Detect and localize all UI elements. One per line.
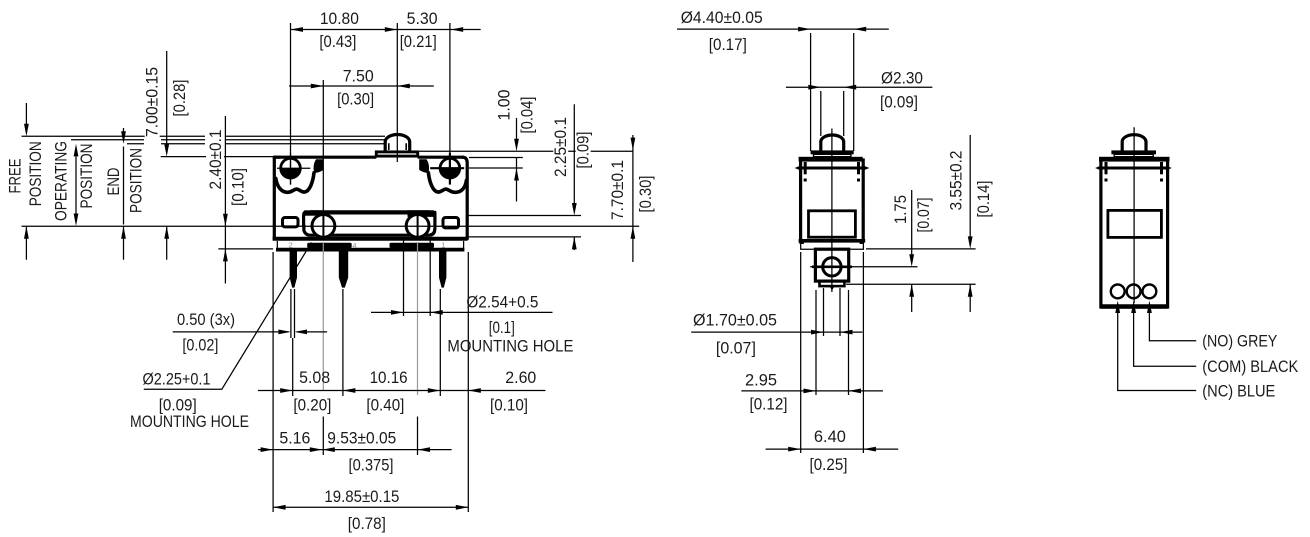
front view right pin: [439, 252, 446, 288]
side view plunger dome: [821, 135, 844, 151]
terminal bottom extension line C: [846, 283, 976, 285]
front view left window: [283, 218, 299, 227]
dim line 0.50: [173, 331, 327, 333]
svg-text:10.16: 10.16: [370, 368, 408, 387]
svg-text:1.75: 1.75: [891, 195, 910, 224]
side view bottom tab: [820, 281, 845, 286]
dim text [0.30] rotated: [636, 175, 655, 213]
front view right scallop cutout: [419, 159, 466, 192]
front view lower band: [304, 210, 435, 235]
dim 2.40 line and arrows: [224, 116, 226, 284]
operating position dim double arrow: [75, 150, 77, 220]
svg-text:(NC) BLUE: (NC) BLUE: [1202, 381, 1275, 400]
band top extension L4: [467, 215, 581, 217]
dim line 19.85: [273, 506, 468, 508]
strip bottom extension line A: [866, 248, 976, 250]
side view base strip: [799, 241, 866, 250]
band right hole center extension gray: [417, 242, 419, 395]
dim line Ø2.30: [786, 86, 933, 88]
front view plunger dome: [385, 135, 410, 151]
svg-text:[0.375]: [0.375]: [349, 455, 394, 474]
end view flange step1: [1111, 150, 1156, 154]
front view left scallop cutout: [276, 159, 324, 192]
dim text [0.30]: [337, 89, 375, 108]
svg-text:Ø2.25+0.1: Ø2.25+0.1: [143, 369, 211, 388]
mounting plane reference line: [22, 225, 640, 227]
side view centerline: [831, 129, 833, 293]
svg-text:[0.30]: [0.30]: [636, 176, 655, 213]
svg-text:7.70±0.1: 7.70±0.1: [608, 160, 627, 220]
svg-text:[0.78]: [0.78]: [348, 514, 386, 533]
svg-text:END: END: [104, 168, 123, 196]
svg-text:1.00: 1.00: [495, 90, 514, 121]
svg-text:19.85±0.15: 19.85±0.15: [324, 487, 399, 506]
dim text 6.40: [812, 427, 848, 446]
svg-text:5.16: 5.16: [279, 428, 310, 447]
right pin extension: [439, 289, 441, 396]
body right extension line: [467, 252, 469, 512]
end view bottom thick line: [1101, 304, 1168, 308]
svg-text:[0.1]: [0.1]: [489, 318, 515, 337]
front view top-right mounting hole: [430, 153, 464, 185]
side view right clip: [856, 162, 861, 182]
dim 7.70 line and arrows: [632, 135, 634, 262]
end view centerline: [1133, 127, 1135, 303]
svg-text:FREE: FREE: [5, 159, 24, 194]
dim 7.00 arrows: [166, 51, 168, 260]
svg-text:0.50 (3x): 0.50 (3x): [177, 310, 235, 329]
svg-text:OPERATING: OPERATING: [52, 141, 71, 221]
svg-text:[0.12]: [0.12]: [750, 395, 788, 414]
side view left clip: [803, 162, 808, 182]
band left hole center extension gray: [322, 242, 324, 390]
dim text 1.75 rotated: [891, 194, 910, 226]
dim text [0.04] rotated: [518, 96, 537, 134]
svg-text:9.53±0.05: 9.53±0.05: [327, 428, 396, 447]
front view top-left mounting hole: [277, 153, 310, 185]
dim line 10.80 and 5.30: [291, 29, 481, 31]
svg-text:[0.07]: [0.07]: [914, 198, 933, 233]
svg-text:[0.04]: [0.04]: [518, 97, 537, 134]
front view left wedge clip: [314, 159, 324, 172]
svg-text:10.80: 10.80: [320, 9, 359, 28]
dim text 7.70±0.1 rotated: [608, 159, 627, 221]
label FREE POSITION: [5, 159, 24, 194]
end view wire hole NO: [1143, 285, 1157, 299]
front view right wedge clip: [419, 159, 429, 172]
svg-text:[0.09]: [0.09]: [880, 92, 918, 111]
svg-text:5.30: 5.30: [407, 9, 438, 28]
dim 1.75 arrows: [911, 190, 913, 312]
dim Ø1.70 extension lines: [824, 288, 841, 336]
end view flange step2: [1099, 157, 1170, 162]
body bottom extension L6: [467, 236, 581, 238]
dim line 2.95: [741, 390, 883, 392]
leader NO wire: [1149, 309, 1196, 341]
dim text [0.14] rotated: [974, 180, 993, 218]
dim text [0.07] rotated: [914, 197, 933, 233]
body top extension L2: [469, 157, 523, 159]
dim line 5.08/10.16/2.60: [258, 390, 545, 392]
svg-text:[0.30]: [0.30]: [337, 89, 374, 108]
dim Ø4.40 extension lines: [811, 33, 854, 151]
front view band left hole: [312, 213, 335, 237]
svg-text:[0.40]: [0.40]: [366, 396, 404, 415]
dim 10.80/5.30 extension lines: [291, 23, 450, 185]
svg-text:7.00±0.15: 7.00±0.15: [143, 67, 162, 137]
side view terminal hole: [823, 258, 841, 276]
dim 6.40 extension lines: [801, 252, 864, 453]
dim text [0.10] rotated: [228, 167, 247, 207]
label OPERATING POSITION: [52, 141, 71, 221]
side view flange thin collar: [814, 154, 851, 156]
end view wire hole COM: [1127, 285, 1141, 299]
dim line 6.40: [766, 448, 899, 450]
svg-text:POSITION: POSITION: [77, 144, 96, 209]
end view body: [1101, 160, 1168, 307]
label END POSITION: [104, 168, 123, 196]
svg-text:5.08: 5.08: [299, 368, 330, 387]
svg-text:[0.14]: [0.14]: [974, 181, 993, 218]
svg-text:MOUNTING HOLE: MOUNTING HOLE: [447, 336, 573, 355]
svg-text:[0.25]: [0.25]: [810, 455, 848, 474]
svg-text:2.60: 2.60: [505, 368, 536, 387]
end position dim arrows: [123, 128, 125, 260]
middle pin extension: [342, 289, 344, 396]
side view inner window: [809, 211, 856, 237]
end view plunger dome: [1122, 135, 1146, 151]
front view body bottom line: [273, 237, 468, 241]
side view terminal crosshair: [810, 266, 917, 268]
base bottom reference line: [218, 248, 273, 250]
side view flange step2: [799, 157, 863, 162]
svg-text:[0.09]: [0.09]: [574, 132, 593, 169]
end position line: [127, 143, 385, 145]
svg-text:2.40±0.1: 2.40±0.1: [206, 130, 225, 190]
end view tick line: [1099, 167, 1169, 170]
svg-text:3.55±0.2: 3.55±0.2: [947, 151, 966, 211]
end view right clip: [1159, 162, 1164, 182]
free position line: [22, 135, 386, 137]
svg-text:[0.02]: [0.02]: [182, 335, 218, 354]
front view band right hole: [406, 213, 429, 237]
svg-text:7.50: 7.50: [343, 66, 374, 85]
body left extension line: [272, 252, 274, 512]
front view plunger centerline: [396, 23, 398, 162]
dim line 7.50: [289, 85, 434, 87]
svg-text:[0.10]: [0.10]: [490, 396, 528, 415]
dim line Ø4.40: [677, 28, 889, 30]
front view right window: [443, 218, 459, 228]
side view terminal: [815, 249, 848, 281]
svg-text:6.40: 6.40: [814, 427, 846, 446]
dim text 2.40±0.1 rotated: [206, 129, 225, 191]
dim text [0.09] rotated: [574, 131, 593, 169]
dim 7.50 extension line: [322, 80, 324, 237]
leader line Ø2.25 mounting hole: [144, 243, 312, 390]
dim text 7.00±0.15 rotated: [143, 66, 162, 138]
svg-text:2.25±0.1: 2.25±0.1: [551, 117, 570, 177]
flange top reference line L1: [419, 150, 633, 152]
left pin edge extensions: [291, 289, 295, 338]
svg-text:[0.10]: [0.10]: [228, 168, 247, 206]
dim text 3.55±0.2 rotated: [947, 150, 966, 212]
end view flange thin collar: [1114, 154, 1153, 156]
dim text [0.40]: [366, 396, 405, 415]
svg-text:(COM) BLACK: (COM) BLACK: [1202, 357, 1299, 376]
dim line Ø2.54: [371, 311, 553, 313]
svg-text:[0.17]: [0.17]: [709, 35, 747, 54]
dim line Ø1.70: [691, 331, 862, 333]
svg-text:Ø2.30: Ø2.30: [881, 69, 923, 88]
svg-text:4: 4: [352, 241, 356, 250]
end view wire hole NC: [1111, 285, 1125, 299]
end view left clip: [1104, 162, 1109, 182]
front view switch body outline: [274, 157, 467, 239]
front view base strip: [276, 240, 464, 250]
svg-text:POSITION: POSITION: [127, 148, 146, 213]
svg-text:[0.43]: [0.43]: [319, 32, 356, 51]
dim text [0.20]: [293, 396, 332, 415]
dim text [0.28] rotated: [170, 79, 189, 117]
svg-text:2.95: 2.95: [745, 370, 777, 389]
svg-text:(NO) GREY: (NO) GREY: [1202, 332, 1277, 351]
svg-text:1: 1: [441, 240, 445, 249]
free position dim arrows: [25, 103, 27, 260]
dim text 1.00 rotated: [495, 88, 514, 122]
svg-text:2: 2: [289, 240, 293, 249]
svg-text:[0.07]: [0.07]: [716, 339, 756, 358]
leader NC wire: [1118, 309, 1197, 391]
dim text 2.25±0.1 rotated: [551, 116, 570, 178]
svg-text:Ø4.40±0.05: Ø4.40±0.05: [681, 8, 763, 27]
dim 2.25 line and arrows: [573, 104, 575, 250]
svg-text:[0.20]: [0.20]: [293, 396, 331, 415]
dim 1.00 arrows: [516, 118, 518, 202]
dim Ø2.30 extension lines: [821, 91, 844, 136]
body top reference line: [161, 156, 274, 158]
dim line 5.16/9.53: [258, 449, 452, 451]
side view flange step1: [811, 150, 854, 154]
svg-text:MOUNTING HOLE: MOUNTING HOLE: [130, 412, 249, 431]
dim 3.55 arrows: [969, 135, 971, 312]
dim 2.95 extension lines: [816, 290, 849, 395]
leader COM wire: [1134, 309, 1197, 366]
side view tick line: [798, 167, 866, 170]
operating position line: [71, 139, 385, 141]
side view body: [801, 160, 864, 241]
front view plunger flange: [376, 152, 417, 156]
svg-text:[0.28]: [0.28]: [170, 80, 189, 117]
dim text 7.50: [339, 66, 378, 85]
svg-text:POSITION: POSITION: [26, 141, 45, 206]
hole center extension L3: [469, 167, 523, 169]
band right hole edge extensions: [404, 239, 431, 317]
front view middle pin: [339, 252, 348, 288]
front view left pin: [290, 252, 297, 288]
svg-text:Ø2.54+0.5: Ø2.54+0.5: [466, 293, 538, 312]
svg-text:Ø1.70±0.05: Ø1.70±0.05: [693, 311, 777, 330]
svg-text:[0.21]: [0.21]: [400, 32, 437, 51]
end view inner window: [1108, 210, 1162, 237]
left pin center extension: [292, 338, 294, 396]
